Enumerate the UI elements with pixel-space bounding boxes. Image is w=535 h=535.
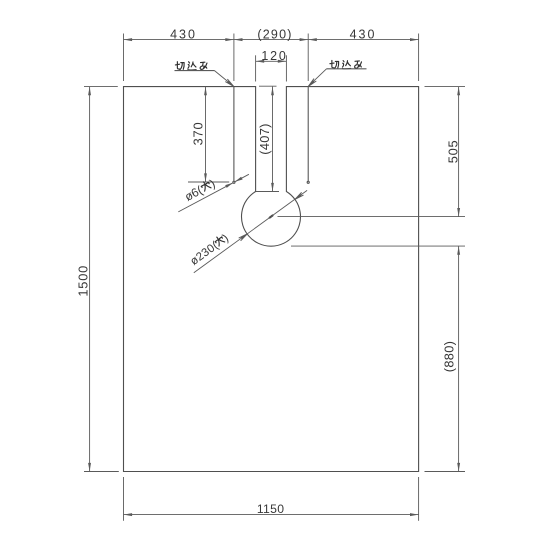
dim text (880) [442, 341, 457, 372]
left notch relief hole (diam 6) [233, 181, 235, 183]
svg-text:(290): (290) [257, 28, 292, 42]
label diam 230 (hole) [188, 232, 231, 268]
dimension diam 230 hole leader [194, 190, 307, 272]
label diam 6 (hole) [182, 176, 217, 204]
dimension (407) (slot depth) [256, 86, 279, 191]
svg-text:1150: 1150 [257, 502, 284, 516]
svg-text:120: 120 [261, 49, 287, 63]
dimension 1150 (overall width) [124, 477, 419, 521]
svg-text:(880): (880) [442, 341, 457, 372]
dimension 1500 (overall height) [84, 87, 119, 472]
label kirikomi (right) with leader [308, 60, 366, 86]
dimension 120 (slot width) [256, 55, 287, 81]
svg-text:430: 430 [170, 28, 197, 42]
svg-text:1500: 1500 [76, 265, 91, 297]
dim text 430 (right) [350, 28, 377, 42]
dim text 430 (left) [170, 28, 197, 42]
panel outline with slot and circular hole [124, 87, 419, 472]
dim text 370 [191, 122, 206, 146]
right notch cut line [307, 87, 309, 181]
dim text (407) [257, 123, 272, 154]
svg-text:505: 505 [446, 140, 461, 164]
dim text 505 [446, 140, 461, 164]
svg-text:430: 430 [350, 28, 377, 42]
svg-text:(407): (407) [257, 123, 272, 154]
dim text 1150 [257, 502, 284, 516]
right notch relief hole (diam 6) [307, 181, 309, 183]
label kirikomi (left) with leader [175, 62, 234, 87]
top dimension line 430/(290)/430 [124, 34, 419, 82]
dimension diam 6 hole leader [178, 174, 249, 212]
hole centre mark [269, 215, 273, 218]
dim text 120 [261, 49, 287, 63]
dimension 370 (left notch depth) [188, 87, 229, 182]
dim text (290) [257, 28, 292, 42]
dimension (880) (hole bottom to panel bottom) [291, 246, 465, 471]
dimension 505 (top to hole centre) [278, 87, 466, 217]
dim text 1500 [76, 265, 91, 297]
svg-text:370: 370 [191, 122, 206, 146]
left notch cut line [233, 87, 235, 181]
